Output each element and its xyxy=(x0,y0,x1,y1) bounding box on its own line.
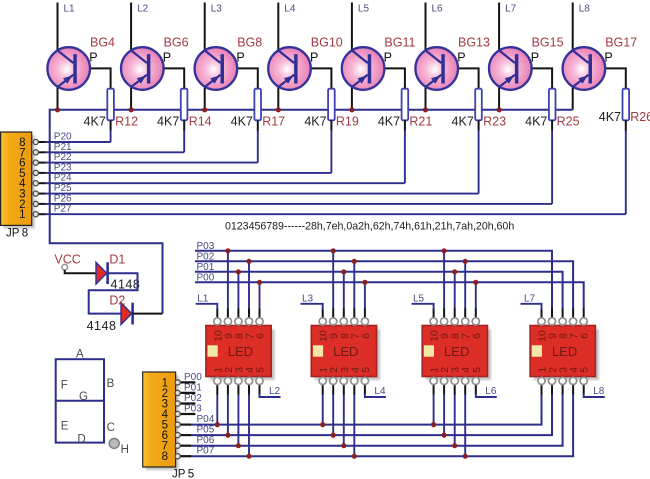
pin 9 module2 xyxy=(330,318,337,325)
pin 8 module2 xyxy=(340,318,347,325)
wire stub top pin9 module2 xyxy=(332,309,334,319)
pin 8 module1 xyxy=(235,318,242,325)
pin circle JP8-8 xyxy=(33,139,38,144)
wire stub top pin8 module1 xyxy=(237,309,239,319)
junction P01 xyxy=(341,269,346,274)
wire stub top pin7 module1 xyxy=(248,309,250,319)
pin 10 module3 xyxy=(430,318,437,325)
wire R23 to P25 xyxy=(478,120,480,131)
wire stub top pin6 module2 xyxy=(364,309,366,319)
wire P02 stub xyxy=(179,402,195,404)
transistor BG8 (PNP) xyxy=(195,47,238,90)
svg-text:4148: 4148 xyxy=(87,319,117,333)
wire R21 to P24 xyxy=(404,120,406,131)
svg-text:P: P xyxy=(310,51,318,65)
svg-text:D1: D1 xyxy=(109,253,125,267)
wire P27 xyxy=(33,213,46,215)
transistor BG11 (PNP) xyxy=(342,47,385,90)
junction P06 xyxy=(236,443,241,448)
pin 6 module3 xyxy=(472,318,479,325)
svg-text:BG6: BG6 xyxy=(164,36,189,50)
wire stub bottom pin5 module4 xyxy=(583,384,585,395)
svg-text:L1: L1 xyxy=(197,294,209,305)
LED display module 3 xyxy=(422,326,491,381)
svg-text:P01: P01 xyxy=(184,382,202,393)
wire stub bottom pin5 module2 xyxy=(364,384,366,395)
svg-text:R25: R25 xyxy=(557,115,580,129)
pin 4 module1 xyxy=(245,377,252,384)
transistor BG6 (PNP) xyxy=(121,47,164,90)
wire module3 pin2 to P05 xyxy=(443,394,445,435)
wire stub top pin8 module3 xyxy=(454,309,456,319)
svg-text:F: F xyxy=(61,380,68,392)
wire L5 to module3 pin10 xyxy=(412,304,434,310)
pin 3 module1 xyxy=(235,377,242,384)
wire emitter xyxy=(57,86,59,110)
wire collector to L2 xyxy=(130,3,132,51)
wire stub bottom pin4 module3 xyxy=(464,384,466,395)
pin circle JP8-7 xyxy=(33,150,38,155)
pin 9 module4 xyxy=(548,318,555,325)
wire base to resistor xyxy=(518,68,552,89)
pin 5 module2 xyxy=(361,377,368,384)
wire base to resistor xyxy=(77,68,111,89)
pin circle JP8-3 xyxy=(33,191,38,196)
svg-text:P: P xyxy=(604,51,612,65)
pin 4 module4 xyxy=(570,377,577,384)
svg-text:L7: L7 xyxy=(524,294,536,305)
wire stub bottom pin1 module1 xyxy=(216,384,218,395)
wire stub top pin8 module2 xyxy=(343,309,345,319)
wire module3 pin1 to P04 xyxy=(433,394,435,425)
wire emitter xyxy=(277,86,279,110)
junction P04 xyxy=(215,422,220,427)
junction P01 xyxy=(236,269,241,274)
wire stub bottom pin4 module4 xyxy=(572,384,574,395)
wire L6 from module3 pin5 xyxy=(476,394,497,398)
wire stub bottom pin2 module1 xyxy=(227,384,229,395)
svg-text:H: H xyxy=(121,444,129,456)
wire module2 pin9 to P03 xyxy=(332,251,334,309)
junction emitter bus xyxy=(497,107,502,112)
svg-text:C: C xyxy=(107,422,115,434)
wire module1 pin6 to P00 xyxy=(259,282,261,309)
pin 3 module3 xyxy=(451,377,458,384)
pin circle JP5-3 xyxy=(175,401,180,406)
wire collector to L8 xyxy=(572,3,574,51)
junction P00 xyxy=(362,280,367,285)
svg-text:A: A xyxy=(76,349,84,361)
wire P00 stub xyxy=(179,381,195,383)
junction P07 xyxy=(352,454,357,459)
svg-text:L6: L6 xyxy=(485,386,497,397)
wire emitter xyxy=(351,86,353,110)
junction P02 xyxy=(246,259,251,264)
wire L4 from module2 pin5 xyxy=(365,394,386,398)
wire module1 pin9 to P03 xyxy=(227,251,229,309)
resistor R26 4K7 xyxy=(623,89,630,121)
wire P03 net (top bus) xyxy=(195,251,552,309)
wire stub top pin6 module1 xyxy=(259,309,261,319)
wire P21 xyxy=(33,151,46,153)
wire P04 net (bottom bus) xyxy=(190,394,542,425)
pin circle JP5-5 xyxy=(175,422,180,427)
wire stub bottom pin3 module4 xyxy=(562,384,564,395)
svg-text:D2: D2 xyxy=(109,293,125,307)
wire L2 from module1 pin5 xyxy=(260,394,281,398)
wire VCC emitter bus xyxy=(50,110,573,314)
junction P05 xyxy=(442,433,447,438)
wire P06 net (bottom bus) xyxy=(190,394,563,446)
LED display module 1 xyxy=(206,326,275,381)
svg-text:P01: P01 xyxy=(197,262,215,273)
wire base to resistor xyxy=(150,68,184,89)
svg-text:R14: R14 xyxy=(189,115,212,129)
svg-text:P: P xyxy=(531,51,539,65)
wire stub top pin6 module4 xyxy=(583,309,585,319)
wire R26 to P27 xyxy=(625,120,627,131)
wire P03 stub xyxy=(179,413,195,415)
svg-text:L1: L1 xyxy=(64,4,76,15)
svg-text:JP 5: JP 5 xyxy=(172,469,194,479)
pin 2 module1 xyxy=(224,377,231,384)
junction P03 xyxy=(331,248,336,253)
wire emitter xyxy=(204,86,206,110)
pin circle JP8-2 xyxy=(33,201,38,206)
junction P04 xyxy=(320,422,325,427)
transistor BG13 (PNP) xyxy=(415,47,458,90)
pin circle JP5-6 xyxy=(175,433,180,438)
wire stub bottom pin3 module2 xyxy=(343,384,345,395)
pin 10 module1 xyxy=(214,318,221,325)
svg-text:D: D xyxy=(77,433,85,445)
pin 1 module2 xyxy=(319,377,326,384)
wire module1 pin1 to P04 xyxy=(216,394,218,425)
svg-text:6: 6 xyxy=(579,333,591,339)
svg-text:5: 5 xyxy=(360,367,372,373)
svg-text:BG17: BG17 xyxy=(605,36,637,50)
svg-text:0123456789------28h,7eh,0a2h,6: 0123456789------28h,7eh,0a2h,62h,74h,61h… xyxy=(225,221,514,233)
svg-text:P27: P27 xyxy=(54,204,72,215)
wire stub bottom pin3 module1 xyxy=(237,384,239,395)
pin 1 module4 xyxy=(538,377,545,384)
wire module1 pin8 to P01 xyxy=(237,272,239,309)
wire stub top pin9 module4 xyxy=(551,309,553,319)
wire stub bottom pin4 module2 xyxy=(353,384,355,395)
wire P26 xyxy=(33,203,46,205)
svg-text:P03: P03 xyxy=(184,404,202,415)
svg-text:P: P xyxy=(89,51,97,65)
wire P20 xyxy=(33,141,46,143)
svg-text:4K7: 4K7 xyxy=(525,115,547,129)
pin 7 module2 xyxy=(351,318,358,325)
pin 9 module1 xyxy=(224,318,231,325)
svg-text:P24: P24 xyxy=(54,173,72,184)
svg-text:8: 8 xyxy=(162,451,168,463)
junction P06 xyxy=(341,443,346,448)
wire collector to L3 xyxy=(204,3,206,51)
pin circle JP5-1 xyxy=(175,380,180,385)
wire collector to L4 xyxy=(277,3,279,51)
pin circle JP5-7 xyxy=(175,443,180,448)
wire P04 stub xyxy=(179,424,191,426)
wire D2 out xyxy=(133,313,163,315)
svg-text:L8: L8 xyxy=(593,386,605,397)
pin 10 module2 xyxy=(319,318,326,325)
wire module1 pin2 to P05 xyxy=(227,394,229,435)
transistor BG15 (PNP) xyxy=(489,47,532,90)
pin 5 module4 xyxy=(580,377,587,384)
wire stub top pin7 module4 xyxy=(572,309,574,319)
svg-text:P03: P03 xyxy=(197,241,215,252)
wire VCC to D1 xyxy=(65,270,97,273)
wire stub top pin7 module2 xyxy=(353,309,355,319)
wire P01 net (top bus) xyxy=(195,272,563,309)
junction P07 xyxy=(463,454,468,459)
svg-text:R21: R21 xyxy=(409,115,432,129)
wire module3 pin9 to P03 xyxy=(443,251,445,309)
wire P05 net (bottom bus) xyxy=(190,394,552,435)
wire emitter xyxy=(572,86,574,110)
svg-text:VCC: VCC xyxy=(54,253,80,267)
svg-text:P07: P07 xyxy=(197,445,215,456)
svg-text:BG8: BG8 xyxy=(237,36,262,50)
junction P00 xyxy=(473,280,478,285)
svg-text:P04: P04 xyxy=(197,414,215,425)
wire base to resistor xyxy=(592,68,626,89)
svg-text:4K7: 4K7 xyxy=(157,115,179,129)
wire base to resistor xyxy=(298,68,332,89)
wire module2 pin2 to P05 xyxy=(332,394,334,435)
svg-text:P06: P06 xyxy=(197,435,215,446)
svg-text:JP 8: JP 8 xyxy=(6,228,28,240)
junction P04 xyxy=(431,422,436,427)
transistor BG10 (PNP) xyxy=(268,47,311,90)
junction P05 xyxy=(225,433,230,438)
svg-text:P05: P05 xyxy=(197,424,215,435)
svg-text:BG13: BG13 xyxy=(458,36,490,50)
pin 5 module3 xyxy=(472,377,479,384)
svg-text:BG15: BG15 xyxy=(532,36,564,50)
svg-text:6: 6 xyxy=(360,333,372,339)
pin circle JP8-4 xyxy=(33,181,38,186)
transistor BG17 (PNP) xyxy=(563,47,606,90)
transistor BG4 (PNP) xyxy=(47,47,90,90)
svg-text:E: E xyxy=(61,420,69,432)
svg-text:5: 5 xyxy=(471,367,483,373)
resistor R25 4K7 xyxy=(549,89,556,121)
svg-text:4K7: 4K7 xyxy=(231,115,253,129)
wire module2 pin1 to P04 xyxy=(322,394,324,425)
wire collector to L6 xyxy=(425,3,427,51)
wire module2 pin3 to P06 xyxy=(343,394,345,446)
svg-text:R17: R17 xyxy=(262,115,285,129)
svg-text:4K7: 4K7 xyxy=(84,115,106,129)
wire module3 pin6 to P00 xyxy=(475,282,477,309)
wire collector to L5 xyxy=(351,3,353,51)
wire module2 pin4 to P07 xyxy=(353,394,355,456)
wire L3 to module2 pin10 xyxy=(301,304,323,310)
pin 2 module2 xyxy=(330,377,337,384)
wire module2 pin7 to P02 xyxy=(353,261,355,309)
wire emitter xyxy=(425,86,427,110)
svg-text:G: G xyxy=(79,391,88,403)
pin 1 module1 xyxy=(214,377,221,384)
pin circle JP8-6 xyxy=(33,160,38,165)
svg-text:4K7: 4K7 xyxy=(378,115,400,129)
svg-text:R23: R23 xyxy=(483,115,506,129)
junction P01 xyxy=(452,269,457,274)
svg-text:L5: L5 xyxy=(413,294,425,305)
wire stub bottom pin1 module2 xyxy=(322,384,324,395)
wire R19 to P23 xyxy=(330,120,332,131)
wire L7 to module4 pin10 xyxy=(521,304,542,310)
pin 7 module1 xyxy=(245,318,252,325)
pin 8 module4 xyxy=(559,318,566,325)
wire collector to L7 xyxy=(498,3,500,51)
wire stub bottom pin1 module3 xyxy=(433,384,435,395)
wire stub bottom pin5 module1 xyxy=(259,384,261,395)
wire stub bottom pin5 module3 xyxy=(475,384,477,395)
wire stub top pin10 module4 xyxy=(541,309,543,319)
junction P03 xyxy=(225,248,230,253)
wire module1 pin7 to P02 xyxy=(248,261,250,309)
wire module1 pin4 to P07 xyxy=(248,394,250,456)
segment G line xyxy=(56,400,104,402)
svg-text:BG11: BG11 xyxy=(384,36,415,50)
connector JP5 xyxy=(146,375,179,470)
svg-text:P00: P00 xyxy=(184,372,202,383)
pin 7 module3 xyxy=(462,318,469,325)
wire module1 pin3 to P06 xyxy=(237,394,239,446)
wire stub bottom pin4 module1 xyxy=(248,384,250,395)
pin 1 module3 xyxy=(430,377,437,384)
pin circle JP5-8 xyxy=(175,454,180,459)
svg-text:1: 1 xyxy=(19,209,25,221)
wire module2 pin8 to P01 xyxy=(343,272,345,309)
resistor R21 4K7 xyxy=(402,89,409,121)
junction P03 xyxy=(442,248,447,253)
svg-text:LED: LED xyxy=(552,344,577,359)
svg-text:5: 5 xyxy=(579,367,591,373)
svg-text:L8: L8 xyxy=(579,4,591,15)
svg-text:4K7: 4K7 xyxy=(599,110,621,124)
pin 2 module3 xyxy=(441,377,448,384)
pin VCC xyxy=(62,264,68,270)
svg-text:P00: P00 xyxy=(197,273,215,284)
svg-text:P: P xyxy=(236,51,244,65)
svg-text:L3: L3 xyxy=(302,294,314,305)
LED display module 2 xyxy=(311,326,380,381)
junction emitter bus xyxy=(276,107,281,112)
wire module3 pin3 to P06 xyxy=(454,394,456,446)
svg-text:6: 6 xyxy=(471,333,483,339)
junction emitter bus xyxy=(423,107,428,112)
junction P07 xyxy=(246,454,251,459)
wire emitter xyxy=(130,86,132,110)
pin 3 module2 xyxy=(340,377,347,384)
pin 6 module4 xyxy=(580,318,587,325)
junction P02 xyxy=(463,259,468,264)
wire base to resistor xyxy=(445,68,479,89)
wire P06 stub xyxy=(179,445,191,447)
wire stub top pin8 module4 xyxy=(562,309,564,319)
pin 8 module3 xyxy=(451,318,458,325)
pin circle JP5-2 xyxy=(175,390,180,395)
wire module3 pin7 to P02 xyxy=(464,261,466,309)
wire P07 net (bottom bus) xyxy=(190,394,573,456)
wire stub top pin10 module2 xyxy=(322,309,324,319)
wire P02 net (top bus) xyxy=(195,261,573,309)
resistor R19 4K7 xyxy=(328,89,335,121)
wire P24 xyxy=(33,182,46,184)
junction emitter bus xyxy=(129,107,134,112)
junction P06 xyxy=(452,443,457,448)
wire module2 pin6 to P00 xyxy=(364,282,366,309)
wire stub bottom pin2 module3 xyxy=(443,384,445,395)
resistor R23 4K7 xyxy=(475,89,482,121)
wire R12 to P20 xyxy=(110,120,112,131)
svg-text:R19: R19 xyxy=(336,115,359,129)
svg-text:P: P xyxy=(384,51,392,65)
svg-text:B: B xyxy=(107,378,115,390)
svg-text:BG4: BG4 xyxy=(90,36,115,50)
svg-text:BG10: BG10 xyxy=(311,36,343,50)
pin 10 module4 xyxy=(538,318,545,325)
svg-text:L4: L4 xyxy=(374,386,386,397)
svg-text:LED: LED xyxy=(444,344,469,359)
wire base to resistor xyxy=(371,68,405,89)
svg-text:LED: LED xyxy=(333,344,358,359)
junction P00 xyxy=(257,280,262,285)
svg-text:P: P xyxy=(457,51,465,65)
svg-text:P02: P02 xyxy=(184,393,202,404)
pin 5 module1 xyxy=(256,377,263,384)
resistor R12 4K7 xyxy=(107,89,114,121)
svg-text:6: 6 xyxy=(255,333,267,339)
diode D2 4148 xyxy=(121,303,133,325)
svg-text:LED: LED xyxy=(228,344,253,359)
svg-text:L2: L2 xyxy=(269,386,281,397)
svg-text:L2: L2 xyxy=(137,4,149,15)
svg-text:L6: L6 xyxy=(432,4,444,15)
pin 3 module4 xyxy=(559,377,566,384)
wire module3 pin8 to P01 xyxy=(454,272,456,309)
svg-text:R26: R26 xyxy=(630,110,650,124)
wire stub bottom pin3 module3 xyxy=(454,384,456,395)
wire P22 xyxy=(33,162,46,164)
wire stub top pin7 module3 xyxy=(464,309,466,319)
pin circle JP8-5 xyxy=(33,170,38,175)
pin circle JP8-1 xyxy=(33,212,38,217)
pin 2 module4 xyxy=(548,377,555,384)
wire stub bottom pin2 module4 xyxy=(551,384,553,395)
svg-text:L7: L7 xyxy=(505,4,517,15)
junction emitter bus xyxy=(55,107,60,112)
wire P25 xyxy=(33,193,46,195)
junction emitter bus xyxy=(202,107,207,112)
pin 6 module1 xyxy=(256,318,263,325)
seven-segment legend box xyxy=(56,359,104,442)
wire R25 to P26 xyxy=(551,120,553,131)
wire stub top pin6 module3 xyxy=(475,309,477,319)
svg-text:L5: L5 xyxy=(358,4,370,15)
pin 4 module3 xyxy=(462,377,469,384)
wire base to resistor xyxy=(224,68,258,89)
junction P02 xyxy=(352,259,357,264)
junction P05 xyxy=(331,433,336,438)
LED display module 4 xyxy=(530,326,599,381)
